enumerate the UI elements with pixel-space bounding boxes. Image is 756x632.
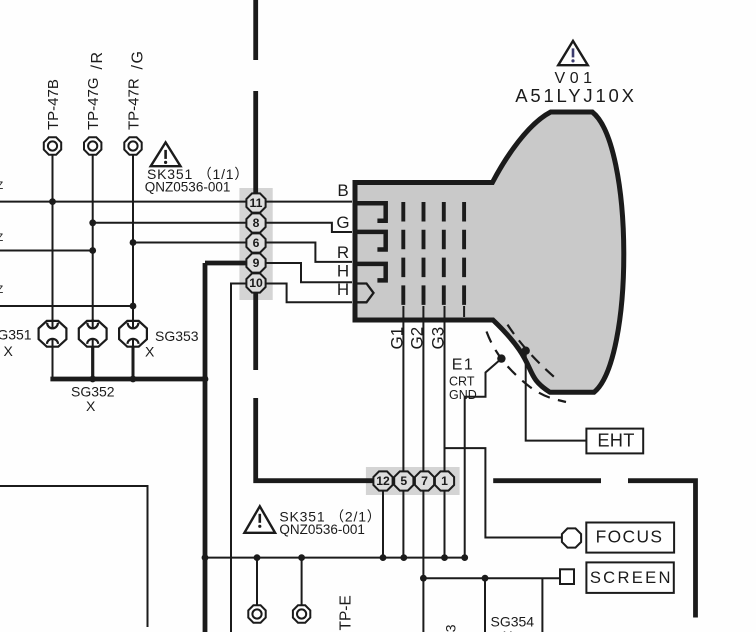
- svg-text:G3: G3: [429, 327, 448, 350]
- svg-text:TP-47R: TP-47R: [126, 78, 143, 130]
- svg-text:X: X: [503, 628, 513, 632]
- svg-text:03: 03: [442, 624, 458, 632]
- svg-text:SCREEN: SCREEN: [590, 568, 673, 587]
- svg-text:/G: /G: [130, 50, 147, 70]
- svg-text:H: H: [337, 280, 349, 299]
- svg-text:9: 9: [253, 256, 260, 270]
- svg-text:Z: Z: [0, 180, 4, 192]
- svg-text:A51LYJ10X: A51LYJ10X: [515, 85, 637, 106]
- svg-text:X: X: [86, 398, 96, 414]
- svg-text:TP-47B: TP-47B: [45, 79, 62, 130]
- svg-text:QNZ0536-001: QNZ0536-001: [145, 179, 231, 194]
- svg-text:SG354: SG354: [491, 614, 535, 630]
- svg-text:G2: G2: [408, 327, 427, 350]
- svg-text:10: 10: [249, 276, 263, 290]
- svg-text:G: G: [336, 213, 349, 232]
- svg-text:11: 11: [250, 196, 263, 210]
- svg-text:X: X: [145, 344, 155, 360]
- svg-text:SG351: SG351: [0, 327, 32, 343]
- svg-text:FOCUS: FOCUS: [596, 527, 664, 547]
- svg-text:7: 7: [421, 474, 428, 488]
- svg-text:B: B: [337, 181, 348, 200]
- svg-text:12: 12: [376, 474, 390, 488]
- svg-text:1: 1: [441, 474, 448, 488]
- svg-text:X: X: [4, 343, 14, 359]
- svg-text:8: 8: [253, 216, 260, 230]
- svg-text:TP-E: TP-E: [338, 595, 355, 630]
- svg-text:5: 5: [400, 474, 407, 488]
- svg-text:Z: Z: [0, 232, 4, 244]
- svg-text:R: R: [337, 243, 349, 262]
- svg-text:E1: E1: [452, 357, 475, 374]
- svg-text:QNZ0536-001: QNZ0536-001: [279, 522, 365, 537]
- svg-text:/R: /R: [89, 51, 106, 70]
- svg-text:Z: Z: [0, 284, 4, 296]
- svg-text:H: H: [337, 262, 349, 281]
- svg-text:6: 6: [253, 236, 260, 250]
- svg-text:G1: G1: [388, 327, 407, 350]
- svg-text:EHT: EHT: [597, 429, 634, 450]
- svg-text:GND: GND: [449, 388, 477, 402]
- svg-text:SG353: SG353: [155, 328, 199, 344]
- svg-text:TP-47G: TP-47G: [85, 77, 102, 130]
- svg-text:CRT: CRT: [449, 374, 475, 388]
